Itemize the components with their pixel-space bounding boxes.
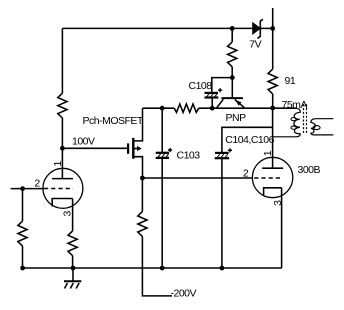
svg-text:1: 1 (52, 160, 64, 166)
junction dot top rail right (270, 26, 275, 31)
wire left vertical upper (61, 28, 63, 93)
wire right vertical to 300B plate (272, 108, 274, 168)
junction dot base node (230, 75, 235, 80)
mosfet Q1 channel bar (132, 138, 134, 159)
transformer T1 core dash 1 (303, 104, 305, 134)
capacitor C103 top lead (161, 108, 163, 152)
wire left vertical lower to plate (61, 118, 63, 179)
svg-text:-200V: -200V (171, 288, 197, 300)
junction dot rail C104 (220, 266, 225, 271)
wire 108 row right (199, 107, 296, 109)
resistor R-source horizontal (174, 104, 199, 112)
ground slash 3 (76, 283, 79, 289)
mosfet Q1 arrow stub (134, 148, 137, 150)
svg-text:2: 2 (34, 178, 40, 190)
triode V1 cathode (52, 199, 72, 207)
plus sign C104 (228, 148, 232, 152)
plus sign C108 (218, 88, 222, 92)
junction dot rail ground (71, 266, 76, 271)
junction dot drain node (140, 176, 145, 181)
junction dot C108 node (210, 106, 215, 111)
plus sign C103 (168, 148, 172, 152)
junction dot grid node (20, 186, 25, 191)
resistor R91 stub (272, 28, 274, 69)
wire -200V drop (141, 178, 143, 212)
junction dot rail left end (20, 266, 25, 271)
capacitor C104 bottom plate (215, 157, 229, 159)
junction dot top rail at R-base (230, 26, 235, 31)
svg-text:7V: 7V (249, 38, 261, 50)
wire grid resistor to rail (22, 246, 24, 268)
svg-text:91: 91 (285, 75, 296, 87)
transformer T1 core dash 2 (306, 104, 308, 134)
transformer T1 primary loop ellipse 2 (291, 126, 296, 129)
svg-text:C108: C108 (189, 80, 213, 92)
wire grid drop (22, 189, 24, 222)
wire top rail right part (261, 27, 273, 29)
triode 300B grid dashes (254, 177, 282, 179)
junction dot C103 node (160, 106, 165, 111)
resistor R-grid (18, 221, 27, 246)
diode D1 zener cathode bar (258, 19, 263, 38)
transformer T1 primary (273, 108, 301, 137)
capacitor C104 bottom lead (221, 159, 223, 268)
triode 300B cathode (264, 188, 282, 196)
wire C104 branch (222, 127, 273, 152)
triode 300B envelope (252, 157, 292, 197)
capacitor C103 bottom plate (156, 157, 169, 159)
capacitor C108 bottom lead (211, 98, 213, 108)
resistor R-cathode (68, 231, 77, 256)
triode 300B plate bar (262, 167, 283, 169)
junction dot rail C103 (160, 266, 165, 271)
capacitor C103 hatch (158, 154, 169, 157)
capacitor C108 bottom plate (205, 96, 219, 98)
junction dot 100V node (60, 146, 65, 151)
capacitor C108 top lead (212, 78, 233, 93)
svg-text:Pch-MOSFET: Pch-MOSFET (83, 115, 144, 127)
wire gate 100V (62, 147, 127, 149)
capacitor C108 hatch (207, 94, 218, 97)
ground stem (72, 268, 74, 281)
node wire 108 row (143, 107, 175, 109)
svg-text:C104,C106: C104,C106 (225, 134, 274, 146)
wire B+ stub (272, 8, 274, 28)
resistor R91 (268, 69, 277, 94)
transformer T1 secondary loop ellipse (313, 126, 320, 130)
resistor R-200 (138, 212, 147, 237)
capacitor C104 hatch (217, 154, 228, 157)
resistor R-plate-left (58, 93, 67, 118)
wire cathode lead down (72, 199, 74, 231)
ground slash 2 (70, 283, 73, 289)
resistor R-base vertical stub top (231, 28, 233, 42)
mosfet Q1 drain lead bottom (134, 157, 142, 178)
svg-text:C103: C103 (177, 150, 201, 162)
wire 300B cathode to rail (281, 188, 283, 268)
triode V1 envelope (43, 168, 83, 208)
capacitor C104 top plate (215, 152, 229, 154)
wire base resistor to node (231, 67, 233, 78)
transistor Q2 base lead (231, 78, 233, 98)
ground bar (64, 280, 81, 282)
wire R91 to node (272, 94, 274, 108)
wire grid row 178 (142, 177, 252, 179)
diode D1 zener triangle (253, 23, 261, 35)
transistor Q2 collector lead (217, 99, 224, 107)
wire -200V tail (142, 236, 172, 296)
wire top rail left part (62, 27, 252, 29)
resistor R-base (228, 42, 237, 67)
transistor Q2 base bar (221, 97, 243, 99)
svg-text:3: 3 (272, 200, 284, 206)
wire bottom rail (23, 267, 282, 269)
capacitor C108 top plate (205, 92, 219, 94)
triode V1 grid dashes (44, 188, 73, 190)
ground slash 1 (65, 283, 68, 289)
transformer T1 secondary (311, 119, 334, 135)
transistor Q2 emitter arrow head (236, 100, 242, 106)
wire grid lead left (11, 188, 44, 190)
mosfet Q1 arrow head (137, 146, 142, 151)
svg-text:300B: 300B (298, 164, 321, 176)
svg-text:3: 3 (62, 210, 74, 216)
triode V1 plate bar (52, 178, 73, 180)
junction dot emitter node (270, 106, 275, 111)
svg-text:75mA: 75mA (282, 99, 308, 111)
svg-text:PNP: PNP (226, 112, 247, 124)
svg-text:1: 1 (262, 150, 274, 156)
transistor Q2 emitter lead (235, 100, 244, 108)
transformer T1 primary loop ellipse 1 (291, 118, 296, 121)
wire cathode resistor to rail (72, 256, 74, 268)
mosfet Q1 source lead top (134, 108, 142, 141)
svg-text:2: 2 (243, 167, 249, 179)
mosfet Q1 gate bar (127, 143, 129, 153)
capacitor C103 bottom lead (161, 159, 163, 268)
svg-text:100V: 100V (72, 136, 95, 148)
capacitor C103 top plate (156, 152, 169, 154)
